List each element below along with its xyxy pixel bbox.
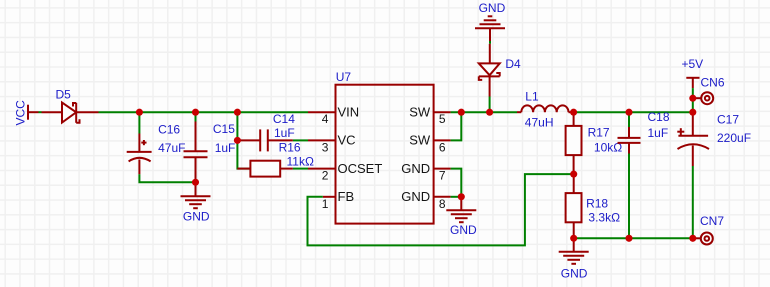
svg-text:CN7: CN7 xyxy=(700,214,724,228)
wire GND3 to D4 xyxy=(489,41,491,44)
pin 5 SW xyxy=(434,111,451,113)
svg-text:GND: GND xyxy=(183,210,210,224)
svg-text:GND: GND xyxy=(450,223,477,237)
wire pin7 down to pin8 xyxy=(451,169,462,197)
svg-text:47uH: 47uH xyxy=(525,115,554,129)
svg-text:R16: R16 xyxy=(279,141,301,155)
pin 6 SW xyxy=(434,139,451,141)
svg-text:11kΩ: 11kΩ xyxy=(287,154,314,168)
wire main rail D5 to U7 VIN xyxy=(99,111,309,113)
connector CN6 xyxy=(693,92,713,104)
svg-text:SW: SW xyxy=(409,105,431,120)
wire +5V to CN6 node xyxy=(692,88,694,98)
pin 7 GND xyxy=(434,168,451,170)
svg-text:R18: R18 xyxy=(586,196,608,210)
wire SW rail xyxy=(451,111,517,113)
ground GND3 top inverted xyxy=(475,16,505,41)
svg-text:C17: C17 xyxy=(717,112,739,126)
pin 8 GND xyxy=(434,196,451,198)
wire R16 to U7 OCSET xyxy=(293,168,308,170)
svg-text:3.3kΩ: 3.3kΩ xyxy=(588,211,620,225)
svg-text:8: 8 xyxy=(439,197,446,211)
svg-text:GND: GND xyxy=(561,266,588,280)
diode D4 xyxy=(479,44,500,97)
svg-text:GND: GND xyxy=(479,1,506,15)
wire output rail xyxy=(574,111,693,113)
svg-text:C14: C14 xyxy=(273,112,295,126)
pin 3 VC xyxy=(308,139,336,141)
svg-text:47uF: 47uF xyxy=(158,141,185,155)
wire C18 top drop xyxy=(628,112,630,127)
svg-text:4: 4 xyxy=(322,112,329,126)
svg-text:C18: C18 xyxy=(648,110,670,124)
capacitor C14 xyxy=(239,129,293,151)
net flag VCC xyxy=(28,105,39,120)
inductor L1 xyxy=(517,105,574,112)
pin 4 VIN xyxy=(308,111,336,113)
pin 2 OCSET xyxy=(308,168,336,170)
svg-text:6: 6 xyxy=(439,140,446,154)
svg-text:1uF: 1uF xyxy=(648,126,669,140)
svg-text:SW: SW xyxy=(409,133,431,148)
IC U7 body xyxy=(336,85,434,224)
wire node to R16 xyxy=(237,140,250,168)
diode D5 xyxy=(42,103,99,123)
svg-text:220uF: 220uF xyxy=(717,131,751,145)
wire bottom rail xyxy=(574,237,693,239)
resistor R16 xyxy=(250,161,280,177)
svg-text:GND: GND xyxy=(401,161,430,176)
capacitor C15 xyxy=(184,122,208,181)
svg-text:VIN: VIN xyxy=(338,105,360,120)
svg-text:CN6: CN6 xyxy=(701,75,725,89)
svg-text:C16: C16 xyxy=(158,122,180,136)
ground GND1 below C15 xyxy=(181,182,211,208)
wire C17 bottom xyxy=(692,166,694,238)
svg-text:R17: R17 xyxy=(588,125,610,139)
svg-text:OCSET: OCSET xyxy=(338,161,383,176)
ground GND2 below pin8 xyxy=(446,197,476,222)
svg-text:3: 3 xyxy=(322,140,329,154)
svg-text:D5: D5 xyxy=(56,87,72,101)
svg-text:7: 7 xyxy=(439,169,446,183)
wire C14 to U7 VC xyxy=(293,139,308,141)
connector CN7 xyxy=(693,233,713,245)
svg-text:C15: C15 xyxy=(213,122,235,136)
wire pin6 up to SW rail xyxy=(451,112,462,140)
svg-text:1uF: 1uF xyxy=(215,141,236,155)
svg-text:FB: FB xyxy=(338,189,355,204)
svg-text:+5V: +5V xyxy=(682,57,704,71)
capacitor C16 xyxy=(127,134,152,175)
svg-text:D4: D4 xyxy=(505,57,521,71)
svg-text:1uF: 1uF xyxy=(274,126,295,140)
wire C16 bottom to GND net xyxy=(139,174,195,182)
wire node drop to C14/R16 xyxy=(236,112,238,140)
svg-text:L1: L1 xyxy=(525,90,539,104)
wire C15 top drop xyxy=(195,112,197,121)
wire C16 top drop xyxy=(138,112,140,133)
wire pin8 to GND xyxy=(451,196,462,198)
resistor R18 xyxy=(566,174,582,238)
resistor R17 xyxy=(566,112,582,174)
capacitor C17 xyxy=(677,112,709,166)
wire CN6 node to rail xyxy=(692,98,694,112)
svg-text:GND: GND xyxy=(401,189,430,204)
net flag +5V xyxy=(686,78,699,88)
svg-text:2: 2 xyxy=(322,169,329,183)
pin 1 FB xyxy=(323,196,336,198)
svg-text:VC: VC xyxy=(338,133,356,148)
wire FB feedback to divider xyxy=(308,174,574,245)
ground GND4 below R18 xyxy=(559,238,589,263)
svg-text:1: 1 xyxy=(322,197,329,211)
svg-text:U7: U7 xyxy=(336,70,352,84)
wire D4 to SW rail xyxy=(489,97,491,113)
capacitor C18 xyxy=(618,127,641,154)
svg-text:VCC: VCC xyxy=(14,100,28,126)
svg-text:5: 5 xyxy=(439,112,446,126)
wire VCC to D5 xyxy=(39,111,42,113)
wire C18 bottom xyxy=(628,154,630,239)
